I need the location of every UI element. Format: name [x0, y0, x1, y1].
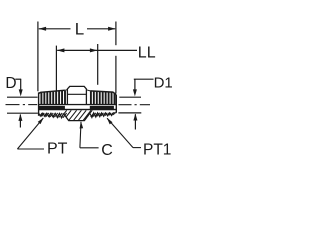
svg-text:D: D	[5, 75, 16, 92]
svg-text:D1: D1	[154, 75, 173, 92]
svg-text:PT1: PT1	[143, 141, 171, 158]
svg-text:PT: PT	[47, 141, 68, 158]
svg-text:LL: LL	[138, 44, 156, 61]
svg-text:C: C	[101, 142, 113, 159]
svg-text:L: L	[75, 19, 84, 38]
